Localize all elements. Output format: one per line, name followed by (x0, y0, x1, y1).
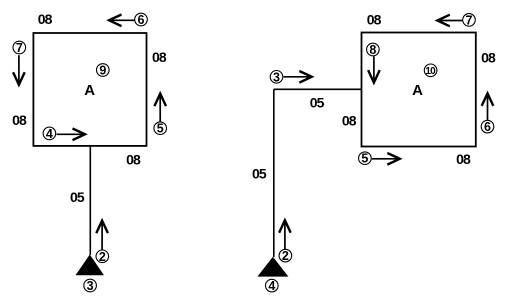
step 4 circled number (left square) (43, 127, 56, 141)
start point triangle (right figure) (257, 257, 288, 277)
step 6 circled number (left square) (135, 13, 148, 27)
step 4 arrow (left square, pointing right) (57, 129, 85, 141)
svg-text:7: 7 (466, 13, 473, 27)
svg-text:6: 6 (484, 120, 491, 134)
step 8 circled number (right square) (367, 43, 380, 57)
step 3 circled number (left figure, below triangle) (84, 279, 97, 293)
svg-text:2: 2 (282, 249, 289, 263)
step 4 circled number (right figure, below triangle) (266, 279, 279, 293)
svg-text:05: 05 (310, 95, 325, 111)
svg-text:5: 5 (361, 152, 368, 166)
start point triangle (left figure) (76, 255, 105, 276)
step 5 arrow (right square, pointing right) (372, 153, 400, 165)
svg-text:A: A (412, 82, 423, 99)
step 6 circled number (right square) (481, 120, 494, 134)
svg-text:6: 6 (138, 13, 145, 27)
left workpiece square A (33, 33, 146, 146)
svg-text:08: 08 (367, 12, 382, 28)
right workpiece square A (362, 33, 476, 147)
svg-text:A: A (84, 82, 95, 99)
step 7 circled number (right square) (463, 13, 476, 27)
wire approach vertical line (right figure, 05 segment) (273, 89, 275, 257)
svg-text:4: 4 (46, 127, 53, 141)
entry horizontal line (right figure, 05 segment) (274, 88, 362, 90)
svg-text:10: 10 (425, 66, 436, 77)
svg-text:08: 08 (456, 151, 471, 167)
wire approach line (left figure, 05 segment) (89, 146, 91, 255)
step 5 arrow (left square, pointing up) (154, 94, 166, 122)
step 10 circled number (right square) (424, 64, 437, 77)
svg-text:7: 7 (16, 41, 23, 55)
svg-text:05: 05 (70, 189, 85, 205)
svg-text:08: 08 (12, 112, 27, 128)
step 8 arrow (right square, pointing down) (368, 56, 380, 82)
step 2 circled number (right figure) (279, 249, 292, 263)
svg-text:9: 9 (99, 64, 106, 78)
svg-text:3: 3 (273, 70, 280, 84)
step 5 circled number (left square) (154, 122, 167, 136)
svg-text:4: 4 (268, 279, 275, 293)
svg-text:08: 08 (152, 49, 167, 65)
svg-text:08: 08 (38, 11, 53, 27)
svg-text:2: 2 (99, 250, 106, 264)
step 2 arrow (left figure, pointing up) (96, 221, 108, 250)
step 3 circled number (right figure) (270, 70, 283, 84)
svg-text:3: 3 (87, 279, 94, 293)
step 9 circled number (left square) (97, 64, 110, 78)
step 7 circled number (left square) (13, 41, 26, 55)
svg-text:08: 08 (126, 151, 141, 167)
step 2 circled number (left figure) (96, 250, 109, 264)
svg-text:05: 05 (252, 165, 267, 181)
step 3 arrow (right figure, pointing right) (284, 71, 312, 83)
svg-text:5: 5 (157, 122, 164, 136)
step 5 circled number (right square) (359, 152, 372, 166)
svg-text:08: 08 (342, 112, 357, 128)
step 6 arrow (left square, pointing left) (109, 15, 135, 27)
step 6 arrow (right square, pointing up) (482, 93, 494, 120)
step 7 arrow (left square, pointing down) (13, 55, 25, 85)
step 2 arrow (right figure, pointing up) (279, 220, 291, 249)
step 7 arrow (right square, pointing left) (437, 15, 462, 27)
svg-text:08: 08 (481, 50, 496, 66)
svg-text:8: 8 (369, 43, 376, 57)
